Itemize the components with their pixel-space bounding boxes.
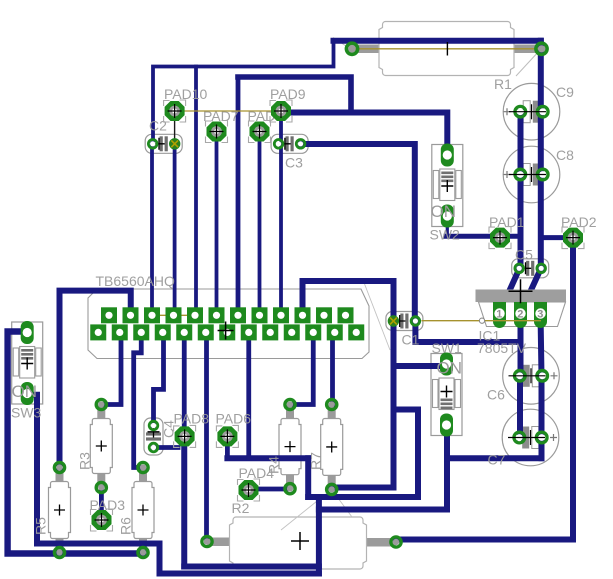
switch SW2 body <box>432 145 463 227</box>
svg-text:ON: ON <box>431 202 457 221</box>
resistor R4 pads <box>285 399 295 493</box>
switch SW2 pads <box>441 144 454 228</box>
svg-text:R6: R6 <box>118 517 134 535</box>
wire SW3 loop right <box>28 395 159 574</box>
svg-text:R2: R2 <box>232 500 250 516</box>
svg-text:7805TV: 7805TV <box>477 340 527 356</box>
svg-text:SW2: SW2 <box>430 227 461 243</box>
leader line U1 to C1 <box>363 280 390 350</box>
capacitor C6 body <box>503 348 560 405</box>
R2 origin cross <box>291 532 309 550</box>
switch SW3 body <box>12 322 43 404</box>
pad PAD7 <box>206 121 228 143</box>
pad PAD9 <box>270 100 292 122</box>
capacitor C9 pads <box>509 104 548 119</box>
wire A to R7 bottom <box>332 485 394 491</box>
resistor R4 body <box>279 405 301 489</box>
pad R1.1 <box>346 43 357 54</box>
resistor R2 body <box>207 517 396 569</box>
svg-text:TB6560AHQ: TB6560AHQ <box>96 273 175 289</box>
svg-text:C9: C9 <box>556 84 574 100</box>
wire R5 top bridge to IC pad t2 <box>60 291 131 468</box>
wire C1.2 to C6.1 rail <box>415 321 520 342</box>
wire IC pad t7 riser <box>236 78 241 315</box>
svg-text:3: 3 <box>537 309 543 321</box>
wire right column C9.2 C8.2 C5.2 <box>538 41 544 269</box>
capacitor C5 pads <box>515 264 546 273</box>
IC U1 pads bottom row <box>90 324 364 340</box>
wire C2.1 to IC pad t3 <box>150 144 154 315</box>
capacitor C8 pads <box>509 167 548 182</box>
airwire through R1 <box>352 48 542 50</box>
wire IC pad b3 to R6 top <box>134 332 143 467</box>
pad PAD8 <box>174 425 196 447</box>
svg-text:ON: ON <box>12 382 38 401</box>
svg-text:R7: R7 <box>308 452 324 470</box>
wire H1 PAD6 row <box>227 455 308 461</box>
pad PAD4 <box>238 479 260 501</box>
resistor R3 body <box>90 405 112 488</box>
airwire PAD10 to PAD9 <box>175 110 281 112</box>
leader lines R2 R7 <box>281 489 352 530</box>
ratsnest PAD10 to C2.2 <box>174 111 176 144</box>
wire left edge column <box>8 332 143 554</box>
capacitor C4 body <box>144 418 163 455</box>
switch SW1 pads <box>440 353 453 437</box>
wire H1b SW1 column to C7 <box>447 455 542 461</box>
wire IC pad b6 to R2 left pad <box>204 332 209 541</box>
capacitor C1 pads <box>389 316 420 325</box>
capacitor C6 pads <box>509 368 548 383</box>
wire left column C9.1 to C5.1 <box>518 112 524 268</box>
wire C2.2 to IC pad t4 <box>173 144 177 315</box>
wire IC pad b12 to R7 top <box>330 332 335 404</box>
resistor R6 pads <box>138 462 148 557</box>
switch SW1 body <box>431 354 462 436</box>
capacitor C9 body <box>503 83 560 140</box>
R1 origin tick <box>446 42 448 56</box>
IC U1 origin cross <box>218 322 234 340</box>
resistor R7 body <box>321 405 343 490</box>
wire branch to SW1 top <box>394 363 447 369</box>
svg-text:C5: C5 <box>515 247 533 263</box>
IC1 origin cross <box>509 279 533 303</box>
airwire C1 to IC1 junction circle <box>422 320 542 322</box>
resistor R6 body <box>132 468 154 553</box>
wire PAD5 to IC pad t8 <box>258 132 262 316</box>
svg-text:R3: R3 <box>77 452 93 470</box>
wire IC pad b5 to PAD8 <box>182 332 187 436</box>
svg-text:PAD3: PAD3 <box>90 497 126 513</box>
wire C2.1 up-right to R1 rail <box>153 41 334 144</box>
wire IC pad b2 to R3 top <box>101 332 121 404</box>
capacitor C1 body <box>386 312 423 331</box>
svg-text:ON: ON <box>437 359 463 378</box>
wire IC pad b11 to R4 top <box>290 332 313 404</box>
IC U1 TB6560AHQ outline <box>88 289 369 359</box>
wire t7 run to PAD9 rail <box>238 77 351 113</box>
airwire on IC top pads <box>152 314 195 316</box>
capacitor C7 pads <box>508 430 547 445</box>
wire SW2 to PAD1 <box>446 234 521 239</box>
wire PAD4 to R4 bottom <box>250 487 290 492</box>
switch SW3 pads <box>21 321 34 405</box>
resistor R7 pads <box>327 399 337 494</box>
wire PAD9 to SW2 top <box>288 113 447 155</box>
IC1 pads 1 2 3 <box>493 302 547 328</box>
svg-text:C7: C7 <box>488 452 506 468</box>
resistor R1 body <box>347 22 547 76</box>
wire C3.2 to C1.2 <box>301 144 415 321</box>
wire main left power column A <box>391 281 397 488</box>
wire PAD7 to IC pad t6 <box>215 132 219 316</box>
svg-text:R5: R5 <box>33 517 49 535</box>
resistor R5 body <box>49 468 71 553</box>
svg-text:C6: C6 <box>487 387 505 403</box>
wire PAD2 column to R2 right pad <box>396 238 573 540</box>
wire IC pad b8 drop <box>246 332 251 458</box>
wire bottom rail y566 <box>184 564 319 570</box>
IC U1 pads top row <box>101 307 354 323</box>
pad R1.2 <box>536 43 547 54</box>
svg-text:PAD7: PAD7 <box>203 108 239 124</box>
wire R1 top rail <box>334 38 541 44</box>
wire R3 bottom to PAD3 <box>99 488 104 521</box>
svg-text:R1: R1 <box>494 76 512 92</box>
pad PAD10 <box>164 100 186 122</box>
wire H4 <box>319 507 447 513</box>
wire C5.1 to IC1 pin1 <box>500 268 520 313</box>
svg-text:C2: C2 <box>149 118 167 134</box>
capacitor C3 body <box>271 134 308 153</box>
voltage regulator IC1 7805TV body <box>476 290 567 327</box>
wire PAD9 via C3.1 to IC pad t9 <box>279 111 283 315</box>
capacitor C5 body <box>512 259 549 278</box>
svg-text:1: 1 <box>496 309 502 321</box>
wire H3 column down <box>316 497 322 574</box>
wire branch to PAD2 <box>541 235 562 240</box>
wire C7.2 stub <box>539 438 545 459</box>
capacitor C2 pads <box>148 139 179 148</box>
pad PAD3 <box>91 509 113 531</box>
wire IC pad b4 to C4 top <box>154 332 164 425</box>
svg-text:SW3: SW3 <box>11 405 42 421</box>
wire C6.2 to C7.2 <box>539 376 545 438</box>
wire IC1 pin2 to C6.1 <box>518 313 524 376</box>
wire PAD8 drop to bottom rail <box>181 436 187 566</box>
svg-text:PAD6: PAD6 <box>216 411 252 427</box>
resistor R5 pads <box>54 462 64 557</box>
svg-text:PAD8: PAD8 <box>174 411 210 427</box>
wire SW1 bottom drop <box>444 427 450 510</box>
pad R2.2 <box>391 537 401 547</box>
pad PAD1 <box>489 227 511 249</box>
resistor R3 pads <box>96 399 106 492</box>
pad PAD2 <box>562 227 584 249</box>
wire C5.2 to IC1 pin2 <box>521 268 542 313</box>
capacitor C8 body <box>503 146 560 203</box>
wire C4 bottom to PAD8 <box>154 445 179 450</box>
wire branch to column B <box>308 410 418 498</box>
wire C6.1 to C7.1 <box>517 376 523 438</box>
wire column x308 up <box>305 458 311 497</box>
wire PAD6 stub <box>225 436 230 458</box>
svg-text:C3: C3 <box>285 155 303 171</box>
svg-text:2: 2 <box>517 309 523 321</box>
svg-text:R4: R4 <box>266 456 282 474</box>
leader lines R1 <box>333 38 540 77</box>
svg-text:C1: C1 <box>402 332 420 348</box>
svg-text:C8: C8 <box>556 147 574 163</box>
pad PAD5 <box>249 121 271 143</box>
wire IC1 pin3 to C6.2 <box>541 313 542 376</box>
pad PAD6 <box>216 425 238 447</box>
capacitor C2 body <box>145 134 182 153</box>
wire IC pad t5 riser <box>194 67 198 316</box>
capacitor C4 pads <box>149 421 158 452</box>
wire IC pad t10 to C1.1 <box>303 281 394 315</box>
capacitor C7 body <box>502 409 559 466</box>
wire bottom rail y573 <box>160 571 319 577</box>
pad R2.1 <box>202 536 212 546</box>
capacitor C3 pads <box>274 140 305 149</box>
wire SW2 bottom stub <box>446 218 449 237</box>
